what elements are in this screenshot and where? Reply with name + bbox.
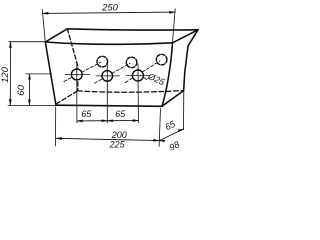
- node: hole axis centerline S1-D1 (dashed): [64, 62, 101, 81]
- node: dim 120/bottom extension: [8, 105, 55, 107]
- wire: hidden back-left edge B to E_bl (dashed): [67, 29, 78, 91]
- node: arrow bottom of dim 120: [9, 99, 11, 105]
- node: leader line for hole label: [143, 77, 146, 79]
- capacitor: hidden hole exit D2 (dashed circle): [126, 57, 137, 68]
- wire: dim line 200/225: [56, 138, 159, 140]
- node: arrow 65b left: [107, 120, 113, 122]
- wire: back-top edge B-C: [67, 29, 198, 30]
- svg-text:65: 65: [81, 109, 92, 119]
- resistor: hole S2 (solid circle): [102, 71, 113, 82]
- node: arrow 65a left: [77, 120, 83, 122]
- resistor: hole S3 (solid circle): [132, 70, 143, 81]
- node: arrow 200 right: [153, 139, 159, 141]
- node: dim 250 extension line left: [42, 10, 45, 42]
- wire: dim line 250: [42, 12, 175, 13]
- node: horizontal centerline of S1: [65, 74, 90, 76]
- node: vertical centerline of S1 (extends to 65-dim): [76, 64, 78, 123]
- wire: top-left depth edge A-B: [45, 29, 67, 42]
- wire: dim line 60: [28, 74, 30, 105]
- capacitor: hidden hole exit D1 (dashed circle): [97, 56, 108, 67]
- wire: bottom-right depth edge F-Fbr: [162, 91, 184, 107]
- node: arrow bottom of dim 60: [28, 100, 30, 106]
- svg-text:Ø25: Ø25: [146, 71, 167, 88]
- node: arrow right of dim 250: [169, 11, 175, 13]
- wire: front-right edge D-F: [162, 43, 173, 107]
- capacitor: hidden hole exit D3 (dashed circle): [156, 54, 167, 65]
- node: dim 200/225 extension right: [159, 109, 160, 147]
- wire: slanted dim line 65/98: [159, 129, 184, 141]
- svg-text:250: 250: [101, 3, 119, 14]
- node: dim 60 extension top: [26, 73, 52, 75]
- node: arrow slant left: [159, 140, 165, 142]
- wire: hidden bottom-back edge E_bl to F_br (dashed): [78, 91, 184, 93]
- node: arrow 200 left: [56, 137, 62, 139]
- wire: bottom-front edge E-F: [56, 105, 162, 106]
- resistor: hole S1 (solid circle): [71, 69, 82, 80]
- wire: back-right edge C-Fbr: [184, 30, 198, 91]
- svg-text:120: 120: [0, 66, 11, 83]
- wire: hidden bottom-left depth edge E to E_bl (dashed): [56, 91, 77, 104]
- svg-text:225: 225: [109, 140, 126, 150]
- node: arrow top of dim 60: [28, 74, 30, 80]
- svg-text:65: 65: [115, 109, 126, 119]
- node: slanted dim 65 extension right: [183, 92, 185, 130]
- node: dim 250 extension line right: [173, 9, 176, 43]
- svg-text:65: 65: [163, 118, 177, 132]
- node: dim 120 extension top: [9, 41, 45, 43]
- svg-text:60: 60: [16, 84, 27, 95]
- node: hole axis centerline S3-D3 (dashed): [125, 61, 160, 83]
- node: arrow top of dim 120: [9, 42, 11, 48]
- node: arrow slant right: [178, 129, 184, 132]
- node: horizontal centerline of S3: [127, 75, 151, 77]
- node: arrow 65b right: [133, 119, 139, 121]
- node: arrow 65a right: [102, 120, 108, 122]
- svg-text:98: 98: [168, 139, 181, 152]
- node: horizontal centerline of S2: [96, 75, 120, 77]
- wire: dim line 120: [9, 42, 11, 106]
- svg-text:200: 200: [111, 130, 127, 140]
- node: vertical centerline of S3 (extends to 65-dim): [137, 64, 139, 123]
- wire: top-right depth edge D-C: [173, 30, 199, 43]
- node: dim 200/225 extension left: [55, 107, 57, 146]
- node: hole axis centerline S2-D2 (dashed): [95, 63, 130, 83]
- wire: front-top edge A-D: [45, 42, 172, 44]
- node: arrow left of dim 250: [42, 12, 48, 14]
- wire: dim line 65 first: [77, 120, 107, 122]
- wire: dim line 65 second: [107, 120, 138, 122]
- wire: front-left edge A-E: [45, 42, 56, 105]
- node: vertical centerline of S2 (extends to 65-dim): [106, 64, 108, 123]
